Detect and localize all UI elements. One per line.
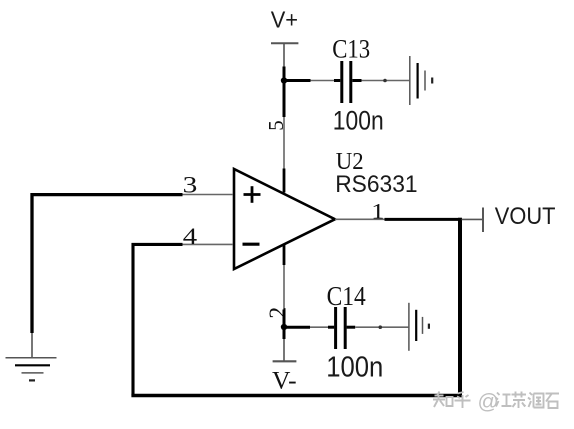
svg-text:RS6331: RS6331 (335, 170, 417, 197)
svg-text:2: 2 (265, 307, 291, 319)
svg-text:@: @ (478, 391, 499, 414)
svg-text:V+: V+ (271, 7, 298, 33)
svg-text:100n: 100n (326, 350, 383, 383)
svg-text:V-: V- (272, 366, 297, 395)
svg-text:C13: C13 (332, 35, 370, 64)
svg-text:100n: 100n (333, 107, 384, 136)
svg-text:5: 5 (264, 120, 288, 131)
svg-text:4: 4 (183, 224, 197, 250)
svg-text:C14: C14 (327, 282, 366, 312)
svg-text:3: 3 (183, 172, 198, 198)
svg-text:1: 1 (371, 199, 384, 223)
svg-text:VOUT: VOUT (495, 202, 556, 229)
